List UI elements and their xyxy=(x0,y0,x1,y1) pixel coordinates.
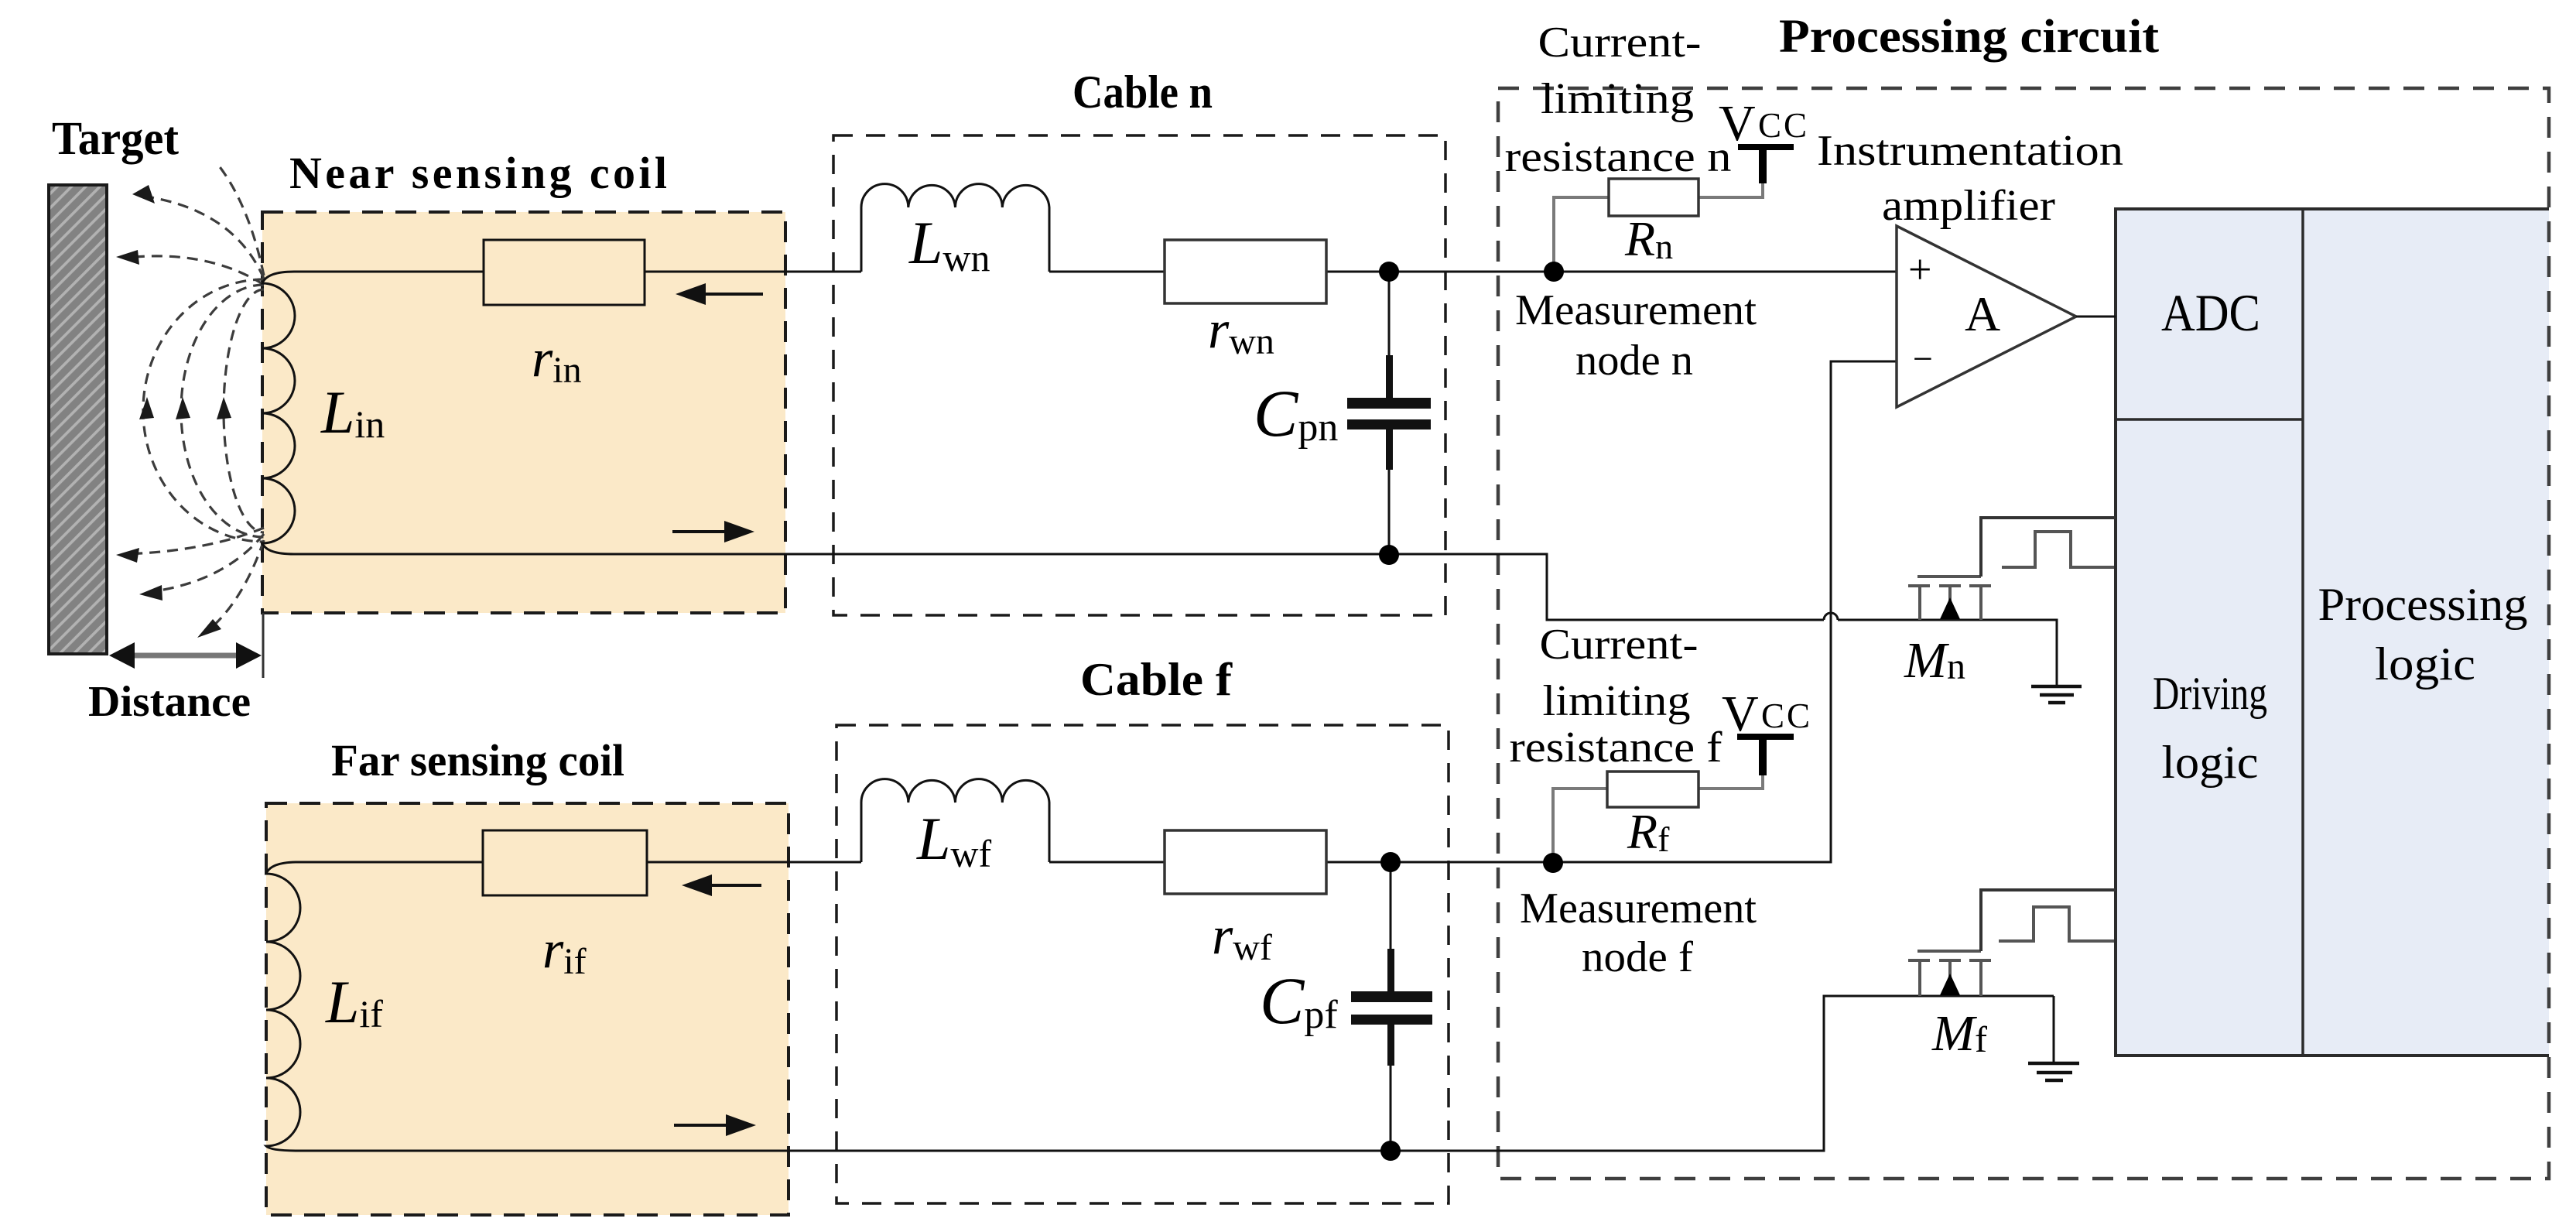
arrowhead loop outer (up) xyxy=(139,397,154,419)
node: cable f top xyxy=(1380,852,1401,872)
arrowhead bottom c xyxy=(197,619,221,638)
field arc bottom c xyxy=(205,540,264,633)
node: cable n bottom xyxy=(1379,545,1399,565)
distance reference line xyxy=(262,613,265,678)
M_f body arrow xyxy=(1940,974,1960,995)
far coil bottom run xyxy=(298,996,2054,1151)
field loop outer xyxy=(143,279,264,542)
arrowhead loop mid (up) xyxy=(176,397,190,419)
op-amp A triangle xyxy=(1897,226,2076,407)
MOSFET M_f xyxy=(1908,951,1991,996)
resistor r_in xyxy=(484,240,645,305)
svg-text:resistance f: resistance f xyxy=(1510,724,1722,772)
wire hop over minus riser xyxy=(1824,613,1838,620)
svg-text:V: V xyxy=(1722,686,1759,742)
svg-text:+: + xyxy=(1908,246,1931,293)
svg-text:logic: logic xyxy=(2162,737,2259,788)
svg-text:node f: node f xyxy=(1582,933,1693,981)
M_n gate wire xyxy=(1981,518,2116,577)
ground (M_n) xyxy=(2031,686,2082,703)
arrowhead bottom a xyxy=(116,548,139,563)
field loop inner xyxy=(224,289,264,532)
resistor R_n leads xyxy=(1554,149,1763,272)
resistor R_n xyxy=(1609,179,1699,216)
current arrow left (far) xyxy=(682,874,761,896)
op-amp output wire xyxy=(2076,316,2116,318)
inductor L_in xyxy=(262,272,295,554)
MOSFET M_n xyxy=(1908,577,1991,620)
node: cable f bottom xyxy=(1380,1141,1401,1161)
current arrow right (far) xyxy=(674,1114,756,1136)
current arrow right (near) xyxy=(672,521,754,542)
far sensing coil box xyxy=(266,803,789,1215)
svg-text:CC: CC xyxy=(1761,696,1812,735)
current arrow left (near) xyxy=(676,283,763,305)
resistor r_wf xyxy=(1165,830,1326,894)
M_f gate wire xyxy=(1981,890,2116,951)
far coil top run xyxy=(298,861,483,864)
target bar xyxy=(49,185,107,654)
resistor r_if xyxy=(483,830,647,895)
svg-text:amplifier: amplifier xyxy=(1882,182,2055,230)
wire: top run resistor to cable xyxy=(645,271,861,273)
Vcc f symbol xyxy=(1737,734,1794,775)
arrowhead bottom b xyxy=(139,585,162,601)
svg-text:Far sensing coil: Far sensing coil xyxy=(331,735,624,785)
resistor R_f leads xyxy=(1553,739,1763,863)
field loop mid xyxy=(181,285,264,537)
svg-text:node n: node n xyxy=(1575,337,1693,385)
wire: L_wf to minus riser xyxy=(1049,361,1897,862)
svg-text:V: V xyxy=(1719,95,1756,152)
svg-text:A: A xyxy=(1965,286,2000,341)
field arc bottom a xyxy=(126,528,264,554)
near sensing coil box xyxy=(262,212,785,613)
inductor L_wf xyxy=(861,779,1049,862)
svg-text:Driving: Driving xyxy=(2153,668,2267,719)
svg-text:resistance n: resistance n xyxy=(1505,133,1732,181)
svg-text:−: − xyxy=(1913,339,1933,378)
svg-text:limiting: limiting xyxy=(1541,75,1694,123)
svg-text:Cable f: Cable f xyxy=(1080,654,1233,705)
node: measurement node n xyxy=(1544,262,1564,282)
wire: near coil top run xyxy=(294,271,484,273)
inductor L_wn xyxy=(861,184,1049,272)
resistor R_f xyxy=(1607,772,1699,807)
capacitor C_pf xyxy=(1351,862,1432,1151)
field lines xyxy=(126,165,264,633)
svg-text:Target: Target xyxy=(52,113,180,165)
wire: L_wn to amplifier xyxy=(1049,271,1897,273)
svg-text:Processing circuit: Processing circuit xyxy=(1779,11,2160,63)
resistor r_wn xyxy=(1165,240,1326,303)
node: cable n top xyxy=(1379,262,1399,282)
node: measurement node f xyxy=(1543,853,1563,873)
capacitor C_pn xyxy=(1347,272,1431,555)
ground (M_f) xyxy=(2028,1063,2079,1080)
svg-text:Cable n: Cable n xyxy=(1072,67,1213,118)
arrowhead top b xyxy=(116,250,139,265)
svg-text:Measurement: Measurement xyxy=(1515,286,1757,334)
wire: r_if to cable f xyxy=(647,861,861,864)
svg-text:Current-: Current- xyxy=(1540,621,1699,669)
field arc top b xyxy=(126,256,264,285)
distance arrow xyxy=(109,642,262,669)
M_f gate pulse xyxy=(1999,907,2114,941)
arrowhead loop inner (up) xyxy=(217,397,231,419)
svg-text:limiting: limiting xyxy=(1543,677,1691,725)
svg-text:logic: logic xyxy=(2375,638,2475,690)
wire: near coil bottom run xyxy=(294,554,2057,686)
M_n body arrow xyxy=(1940,597,1960,619)
Vcc n symbol xyxy=(1738,144,1794,183)
field arc bottom b xyxy=(149,534,264,592)
svg-text:Current-: Current- xyxy=(1538,19,1702,67)
M_n gate pulse xyxy=(2002,532,2114,567)
ADC / logic block xyxy=(2116,209,2549,1056)
svg-text:Measurement: Measurement xyxy=(1520,885,1757,933)
arrowhead top a xyxy=(132,185,155,204)
field arc top outer xyxy=(218,165,264,275)
svg-text:Instrumentation: Instrumentation xyxy=(1817,127,2123,175)
field arc top a xyxy=(142,196,264,279)
svg-text:Processing: Processing xyxy=(2318,579,2528,630)
cable f box xyxy=(836,725,1449,1203)
svg-text:CC: CC xyxy=(1758,106,1809,145)
processing circuit box xyxy=(1498,88,2549,1179)
inductor L_if xyxy=(266,862,300,1151)
cable n box xyxy=(833,135,1445,615)
svg-text:ADC: ADC xyxy=(2161,283,2260,342)
svg-text:Distance: Distance xyxy=(88,678,251,726)
